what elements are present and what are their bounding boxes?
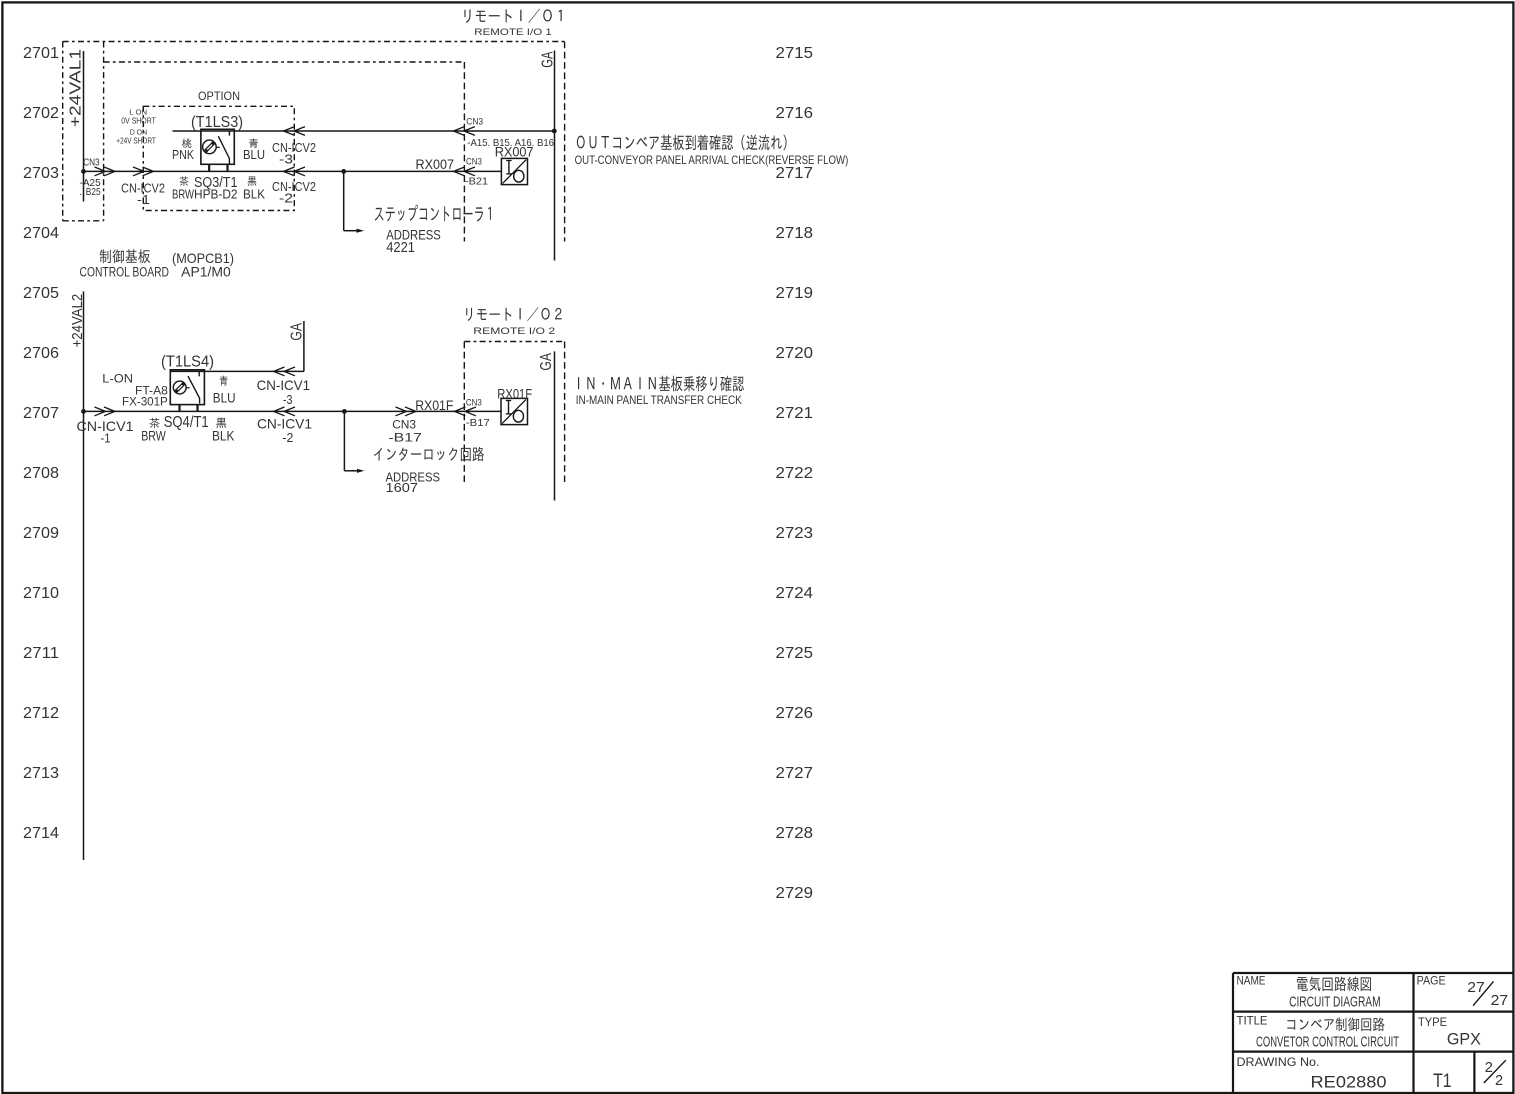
svg-text:-2: -2 — [279, 192, 293, 206]
svg-text:-B17: -B17 — [388, 431, 422, 445]
svg-text:L-ON: L-ON — [102, 371, 133, 385]
svg-text:2714: 2714 — [23, 825, 59, 842]
svg-text:NAME: NAME — [1237, 976, 1266, 988]
svg-text:2721: 2721 — [776, 405, 814, 422]
svg-text:2723: 2723 — [776, 525, 814, 542]
svg-text:-B21: -B21 — [465, 176, 488, 188]
svg-text:RX01F: RX01F — [415, 398, 453, 413]
svg-text:-3: -3 — [283, 392, 293, 407]
svg-text:SQ4/T1: SQ4/T1 — [164, 414, 209, 431]
svg-text:CN3: CN3 — [392, 418, 416, 432]
svg-text:2705: 2705 — [23, 285, 59, 302]
svg-text:CN3: CN3 — [466, 398, 482, 409]
svg-text:2726: 2726 — [776, 705, 814, 722]
svg-text:2716: 2716 — [776, 105, 814, 122]
svg-text:2718: 2718 — [776, 225, 814, 242]
svg-text:PAGE: PAGE — [1417, 976, 1446, 988]
svg-text:-2: -2 — [282, 430, 293, 445]
svg-text:GA: GA — [289, 322, 306, 340]
svg-text:CN3: CN3 — [466, 156, 482, 167]
svg-text:+24V SHORT: +24V SHORT — [116, 135, 156, 145]
svg-text:RX01F: RX01F — [497, 387, 532, 402]
svg-text:2704: 2704 — [23, 225, 59, 242]
svg-text:2717: 2717 — [776, 165, 814, 182]
svg-text:TITLE: TITLE — [1237, 1015, 1268, 1027]
svg-text:REMOTE I/O 1: REMOTE I/O 1 — [474, 27, 552, 38]
svg-text:27: 27 — [1491, 992, 1509, 1009]
svg-text:OUT-CONVEYOR PANEL ARRIVAL CHE: OUT-CONVEYOR PANEL ARRIVAL CHECK(REVERSE… — [575, 153, 849, 167]
svg-text:HPB-D2: HPB-D2 — [194, 187, 238, 202]
svg-text:BLU: BLU — [243, 147, 265, 162]
svg-text:2722: 2722 — [776, 465, 814, 482]
svg-text:2725: 2725 — [776, 645, 814, 662]
svg-text:T1: T1 — [1433, 1071, 1452, 1092]
svg-text:2709: 2709 — [23, 525, 59, 542]
svg-text:-B17: -B17 — [466, 417, 490, 429]
svg-text:DRAWING No.: DRAWING No. — [1237, 1055, 1320, 1069]
svg-text:OPTION: OPTION — [198, 89, 240, 103]
svg-text:2728: 2728 — [776, 825, 814, 842]
svg-text:AP1/M0: AP1/M0 — [181, 264, 231, 279]
svg-text:BRW: BRW — [172, 187, 195, 202]
svg-text:2712: 2712 — [23, 705, 59, 722]
svg-text:CIRCUIT DIAGRAM: CIRCUIT DIAGRAM — [1289, 994, 1381, 1011]
svg-text:GPX: GPX — [1447, 1030, 1481, 1049]
svg-text:2713: 2713 — [23, 765, 59, 782]
svg-text:FX-301P: FX-301P — [122, 395, 168, 409]
svg-text:PNK: PNK — [172, 147, 194, 162]
svg-text:2702: 2702 — [23, 105, 59, 122]
svg-text:-3: -3 — [279, 153, 293, 167]
svg-text:0V SHORT: 0V SHORT — [121, 115, 156, 125]
svg-text:BLU: BLU — [213, 391, 236, 406]
svg-text:BLK: BLK — [243, 187, 265, 202]
svg-text:(T1LS4): (T1LS4) — [161, 354, 214, 371]
svg-text:2711: 2711 — [23, 645, 59, 662]
svg-text:GA: GA — [538, 352, 555, 370]
svg-text:2703: 2703 — [23, 165, 59, 182]
svg-text:2710: 2710 — [23, 585, 59, 602]
svg-text:CONVETOR CONTROL CIRCUIT: CONVETOR CONTROL CIRCUIT — [1256, 1034, 1399, 1051]
svg-text:RE02880: RE02880 — [1311, 1073, 1387, 1092]
svg-text:.: . — [79, 186, 82, 198]
svg-text:REMOTE I/O 2: REMOTE I/O 2 — [473, 326, 555, 337]
svg-text:B25: B25 — [86, 186, 101, 198]
svg-text:2: 2 — [1495, 1073, 1503, 1089]
svg-text:2720: 2720 — [776, 345, 814, 362]
svg-text:-1: -1 — [101, 431, 111, 446]
svg-text:CN3: CN3 — [466, 117, 483, 128]
svg-text:(T1LS3): (T1LS3) — [191, 114, 243, 131]
svg-text:2727: 2727 — [776, 765, 814, 782]
svg-text:CN-ICV1: CN-ICV1 — [257, 377, 311, 393]
svg-text:2729: 2729 — [776, 885, 814, 902]
svg-text:2724: 2724 — [776, 585, 814, 602]
svg-text:BLK: BLK — [212, 428, 235, 443]
svg-text:CN3: CN3 — [83, 156, 100, 168]
svg-text:CONTROL BOARD: CONTROL BOARD — [80, 264, 170, 279]
svg-text:TYPE: TYPE — [1418, 1017, 1447, 1029]
svg-text:GA: GA — [539, 51, 556, 68]
svg-text:2706: 2706 — [23, 345, 59, 362]
svg-text:+24VAL2: +24VAL2 — [69, 294, 86, 348]
svg-text:1607: 1607 — [386, 480, 419, 495]
svg-text:27: 27 — [1467, 979, 1485, 996]
svg-text:IN-MAIN PANEL TRANSFER CHECK: IN-MAIN PANEL TRANSFER CHECK — [576, 393, 742, 407]
svg-text:2719: 2719 — [776, 285, 814, 302]
svg-text:2701: 2701 — [23, 45, 59, 62]
svg-text:2707: 2707 — [23, 405, 59, 422]
svg-text:RX007: RX007 — [416, 156, 455, 172]
svg-text:2708: 2708 — [23, 465, 59, 482]
svg-text:2715: 2715 — [776, 45, 814, 62]
svg-text:RX007: RX007 — [495, 143, 534, 159]
svg-text:BRW: BRW — [141, 428, 166, 443]
svg-text:-1: -1 — [137, 193, 150, 207]
svg-text:4221: 4221 — [386, 239, 415, 256]
svg-text:+24VAL1: +24VAL1 — [68, 49, 85, 128]
svg-text:2: 2 — [1485, 1060, 1493, 1076]
